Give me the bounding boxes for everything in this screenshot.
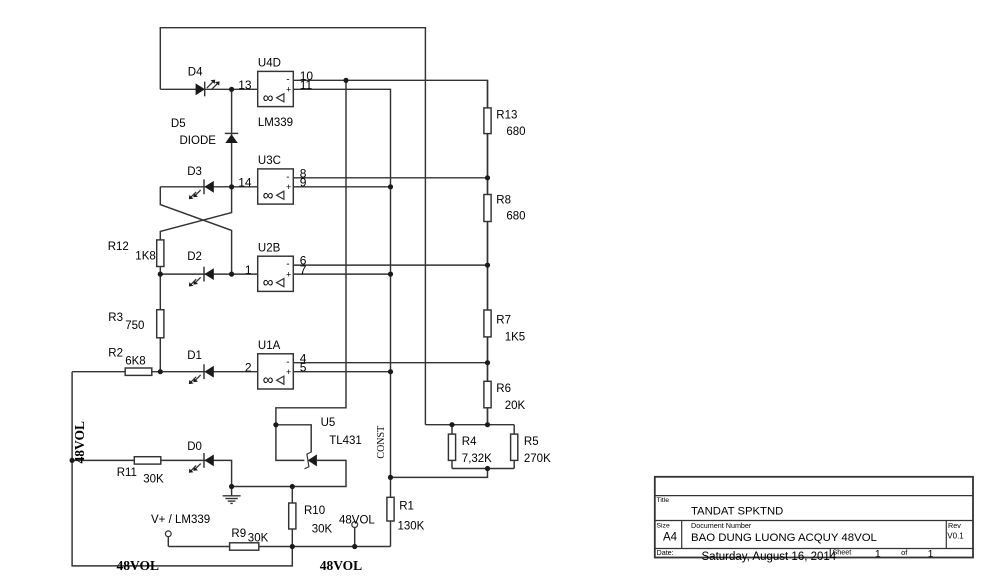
svg-text:Rev: Rev xyxy=(948,521,961,530)
svg-text:TL431: TL431 xyxy=(329,435,362,447)
svg-text:U5: U5 xyxy=(321,417,336,429)
svg-text:R12: R12 xyxy=(108,241,129,253)
wire bottom rail from V+ terminal through R9 to R1 xyxy=(168,546,390,548)
node 48VOL terminal xyxy=(339,515,375,547)
svg-text:A4: A4 xyxy=(663,532,678,544)
svg-text:5: 5 xyxy=(300,360,307,374)
op-amp U4D (LM339 comparator) xyxy=(238,58,313,107)
wire right column R13-R8-R7-R6 xyxy=(487,80,489,424)
junction R2 / R3 / D1 xyxy=(158,369,163,374)
LED D0 xyxy=(187,441,214,473)
svg-text:Saturday, August 16, 2014: Saturday, August 16, 2014 xyxy=(702,551,837,563)
wire U5 reference branch xyxy=(276,425,311,453)
resistor R7 xyxy=(484,310,525,343)
resistor R4 xyxy=(448,434,492,465)
junction ground row / R10 top xyxy=(290,484,295,489)
svg-text:U4D: U4D xyxy=(258,58,281,70)
resistor R1 xyxy=(387,497,425,532)
op-amp U3C (LM339 comparator) xyxy=(238,155,306,204)
svg-text:R13: R13 xyxy=(496,109,517,121)
junction pin 9 / middle vertical xyxy=(388,184,393,189)
wire R5 branch xyxy=(513,425,515,469)
svg-text:R9: R9 xyxy=(231,528,246,540)
svg-text:V0.1: V0.1 xyxy=(947,532,964,541)
junction D0 cathode / ground xyxy=(229,484,234,489)
svg-text:∞: ∞ xyxy=(263,372,274,389)
svg-text:30K: 30K xyxy=(312,524,333,536)
svg-text:U1A: U1A xyxy=(258,340,281,352)
wire D4 row (top box left to U4D output pin 13) xyxy=(160,88,257,90)
junction 48VOL terminal / bottom rail xyxy=(352,544,357,549)
LED D2 xyxy=(187,251,214,287)
resistor R13 xyxy=(484,108,526,138)
wire D0 row (left rail through R11 and D0) xyxy=(72,460,232,486)
junction D4 cathode / D5 xyxy=(229,87,234,92)
svg-text:1K8: 1K8 xyxy=(135,251,155,263)
junction R4 top xyxy=(449,422,454,427)
junction U5 cathode / reference xyxy=(273,422,278,427)
svg-text:of: of xyxy=(901,548,908,557)
svg-text:R10: R10 xyxy=(304,505,325,517)
svg-text:7: 7 xyxy=(300,263,307,277)
resistor R9 xyxy=(230,528,269,550)
svg-text:D0: D0 xyxy=(187,441,202,453)
resistor R3 xyxy=(108,310,164,338)
LED D1 xyxy=(187,350,214,384)
svg-text:Date:: Date: xyxy=(657,548,674,557)
svg-text:750: 750 xyxy=(125,320,144,332)
wire left 48VOL rail down and across the bottom xyxy=(72,372,292,566)
svg-text:+: + xyxy=(286,269,291,279)
junction pin 7 / middle vertical xyxy=(388,272,393,277)
wire D3 row to U3C output pin 14 xyxy=(160,186,257,188)
junction R8/R7 / pin 6 xyxy=(485,263,490,268)
op-amp U1A (LM339 comparator) xyxy=(245,340,307,389)
svg-text:11: 11 xyxy=(300,78,313,92)
svg-text:6K8: 6K8 xyxy=(125,356,145,368)
svg-text:R1: R1 xyxy=(399,501,414,513)
wire U4D pin 11 down right-middle vertical to R1 xyxy=(293,89,390,546)
svg-text:Title: Title xyxy=(657,497,670,504)
ground xyxy=(223,487,241,504)
wire U1A pin 5 to middle vertical xyxy=(293,371,390,373)
svg-text:R8: R8 xyxy=(496,194,511,206)
junction pin 5 / middle vertical xyxy=(388,369,393,374)
svg-text:30K: 30K xyxy=(143,474,164,486)
svg-text:∞: ∞ xyxy=(263,274,274,291)
svg-text:48VOL: 48VOL xyxy=(320,558,362,573)
wire U3C pin 8 to R13/R8 junction xyxy=(293,177,487,179)
resistor R10 xyxy=(289,503,333,536)
wire U4D pin 10 to R13 top xyxy=(293,80,487,424)
wire top loop from D4 anode over to R4/R5 rail xyxy=(160,28,425,425)
wire D5 column (D4 cathode junction down to D3 row) xyxy=(231,89,233,187)
svg-text:30K: 30K xyxy=(248,533,269,545)
svg-text:14: 14 xyxy=(238,176,252,190)
svg-text:LM339: LM339 xyxy=(258,117,293,129)
wire U2B pin 7 to middle vertical xyxy=(293,273,390,275)
svg-text:48VOL: 48VOL xyxy=(339,515,375,527)
svg-text:BAO DUNG LUONG ACQUY 48VOL: BAO DUNG LUONG ACQUY 48VOL xyxy=(691,532,877,544)
svg-text:R11: R11 xyxy=(117,467,137,479)
svg-text:48VOL: 48VOL xyxy=(117,558,159,573)
wire from pin10 junction down to U5 cathode loop xyxy=(276,80,346,425)
svg-text:TANDAT SPKTND: TANDAT SPKTND xyxy=(691,506,783,518)
svg-text:1K5: 1K5 xyxy=(505,331,525,343)
junction 48VOL rail / D0 row xyxy=(70,458,75,463)
svg-text:48VOL: 48VOL xyxy=(72,421,87,463)
wire D2 row to U2B output pin 1 xyxy=(160,273,257,275)
svg-text:D3: D3 xyxy=(187,166,202,178)
svg-text:D1: D1 xyxy=(187,350,202,362)
svg-text:7,32K: 7,32K xyxy=(462,453,492,465)
svg-text:13: 13 xyxy=(238,78,252,92)
svg-text:+: + xyxy=(286,85,291,95)
junction R6 bottom / R4R5 rail xyxy=(485,422,490,427)
resistor R11 xyxy=(117,457,164,486)
resistor R12 xyxy=(108,240,164,267)
wire R4/R5 bottom rail and jog to middle vertical xyxy=(391,469,515,478)
wire U5 cathode loop xyxy=(276,425,305,461)
title block xyxy=(655,477,973,563)
svg-text:U3C: U3C xyxy=(258,155,281,167)
svg-text:V+ / LM339: V+ / LM339 xyxy=(151,514,210,526)
junction R7/R6 / pin 4 xyxy=(485,360,490,365)
svg-text:R6: R6 xyxy=(496,383,511,395)
svg-text:9: 9 xyxy=(300,176,307,190)
svg-text:DIODE: DIODE xyxy=(180,135,217,147)
svg-text:∞: ∞ xyxy=(263,89,274,106)
junction R12 bottom / D2 anode xyxy=(158,272,163,277)
svg-text:+: + xyxy=(286,367,291,377)
junction R4/R5 bottom xyxy=(485,466,490,471)
LED D4 xyxy=(188,67,220,97)
diode D5 xyxy=(171,118,238,147)
wire U1A pin 4 to R7/R6 junction xyxy=(293,362,487,364)
svg-text:270K: 270K xyxy=(524,453,551,465)
svg-text:D4: D4 xyxy=(188,67,203,79)
wire cross diagonal from D3 anode to D2 cathode column xyxy=(160,187,231,274)
resistor R8 xyxy=(484,194,526,222)
wire R4 branch xyxy=(451,425,453,469)
wire ground row to TL431 anode xyxy=(232,460,346,486)
svg-text:R3: R3 xyxy=(108,312,123,324)
svg-text:1: 1 xyxy=(928,548,934,560)
svg-text:R7: R7 xyxy=(496,314,511,326)
LED D3 xyxy=(187,166,214,199)
junction pin 10 / sense column xyxy=(343,78,348,83)
wire U3C pin 9 to middle vertical xyxy=(293,186,390,188)
svg-text:1: 1 xyxy=(245,263,252,277)
junction R13/R8 / pin 8 xyxy=(485,175,490,180)
junction D2 cathode / cross wire xyxy=(229,272,234,277)
svg-text:680: 680 xyxy=(506,210,525,222)
resistor R5 xyxy=(511,434,551,465)
svg-text:1: 1 xyxy=(875,548,881,560)
svg-text:R2: R2 xyxy=(108,347,123,359)
junction middle vertical / R4R5 return xyxy=(388,475,393,480)
wire cross diagonal from D3 cathode column to R12 xyxy=(160,187,231,372)
svg-text:∞: ∞ xyxy=(263,187,274,204)
svg-text:D2: D2 xyxy=(187,251,202,263)
wire R10 column (ground row to bottom rail) xyxy=(291,487,293,547)
junction D3 cathode / D5 xyxy=(229,184,234,189)
svg-text:R4: R4 xyxy=(462,436,477,448)
svg-text:2: 2 xyxy=(245,360,252,374)
junction R10 bottom / bottom rail xyxy=(290,544,295,549)
svg-text:130K: 130K xyxy=(398,521,425,533)
svg-text:Sheet: Sheet xyxy=(833,548,852,557)
svg-text:R5: R5 xyxy=(524,436,539,448)
op-amp U2B (LM339 comparator) xyxy=(245,243,307,292)
svg-text:+: + xyxy=(286,182,291,192)
shunt regulator U5 TL431 xyxy=(305,417,362,469)
wire U2B pin 6 to R8/R7 junction xyxy=(293,264,487,266)
svg-text:U2B: U2B xyxy=(258,243,281,255)
node V+ / LM339 terminal xyxy=(151,514,210,547)
svg-text:20K: 20K xyxy=(505,400,526,412)
resistor R2 xyxy=(108,347,152,375)
svg-text:680: 680 xyxy=(506,126,525,138)
resistor R6 xyxy=(484,381,526,412)
svg-text:CONST: CONST xyxy=(376,426,387,459)
svg-text:D5: D5 xyxy=(171,118,186,130)
wire R4/R5 top rail xyxy=(425,424,514,426)
svg-text:Document Number: Document Number xyxy=(691,521,752,530)
svg-text:Size: Size xyxy=(657,523,670,530)
wire D1 row (left rail through R2, D1 to U1A pin 2) xyxy=(72,371,258,373)
